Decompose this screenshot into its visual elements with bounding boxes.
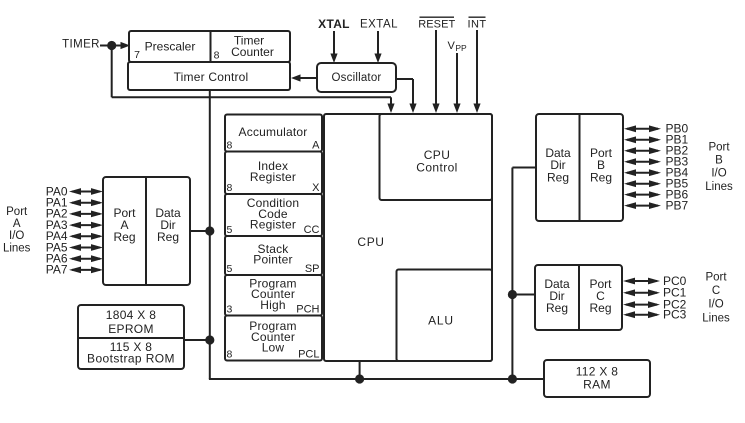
svg-text:Prescaler: Prescaler — [145, 39, 196, 53]
svg-text:8: 8 — [214, 49, 220, 61]
svg-text:Lines: Lines — [3, 242, 31, 254]
svg-text:RESET: RESET — [418, 19, 455, 31]
svg-text:8: 8 — [227, 139, 233, 151]
svg-text:Register: Register — [250, 170, 296, 184]
svg-text:PCH: PCH — [296, 304, 319, 316]
svg-text:Lines: Lines — [705, 181, 733, 193]
svg-text:EXTAL: EXTAL — [360, 19, 398, 31]
svg-text:SP: SP — [305, 263, 320, 275]
svg-text:EPROM: EPROM — [108, 322, 154, 336]
svg-text:I/O: I/O — [708, 299, 723, 311]
svg-text:PC3: PC3 — [663, 308, 687, 322]
svg-text:X: X — [312, 182, 320, 194]
svg-text:XTAL: XTAL — [318, 17, 350, 31]
svg-text:CC: CC — [304, 224, 320, 236]
svg-text:Port: Port — [6, 206, 28, 218]
svg-text:I/O: I/O — [711, 168, 726, 180]
svg-text:CPU: CPU — [357, 235, 384, 249]
svg-text:INT: INT — [468, 19, 487, 31]
svg-text:Port: Port — [708, 141, 730, 153]
svg-text:TIMER: TIMER — [62, 39, 100, 51]
svg-text:PA7: PA7 — [46, 263, 68, 277]
svg-text:ALU: ALU — [428, 313, 454, 327]
svg-text:A: A — [312, 140, 320, 152]
svg-text:Control: Control — [416, 160, 457, 174]
svg-text:3: 3 — [227, 303, 233, 315]
svg-text:Accumulator: Accumulator — [239, 125, 308, 139]
svg-text:Timer Control: Timer Control — [174, 70, 249, 84]
svg-text:B: B — [715, 154, 723, 166]
svg-text:Low: Low — [262, 341, 285, 355]
svg-text:Reg: Reg — [589, 301, 611, 315]
svg-text:1804 X 8: 1804 X 8 — [106, 308, 156, 322]
svg-text:Lines: Lines — [702, 312, 730, 324]
svg-text:A: A — [13, 218, 21, 230]
svg-text:Reg: Reg — [547, 170, 569, 184]
svg-text:Bootstrap ROM: Bootstrap ROM — [87, 351, 175, 365]
svg-text:7: 7 — [134, 49, 140, 61]
svg-text:I/O: I/O — [9, 230, 24, 242]
svg-text:Pointer: Pointer — [253, 253, 292, 267]
svg-text:8: 8 — [227, 348, 233, 360]
svg-text:Register: Register — [250, 218, 296, 232]
svg-text:Reg: Reg — [113, 230, 135, 244]
svg-text:5: 5 — [227, 263, 233, 275]
svg-text:RAM: RAM — [583, 377, 611, 391]
svg-text:Reg: Reg — [157, 230, 179, 244]
svg-text:PB7: PB7 — [666, 198, 689, 212]
svg-text:Counter: Counter — [231, 45, 274, 59]
svg-text:PCL: PCL — [298, 349, 319, 361]
svg-text:Oscillator: Oscillator — [332, 72, 382, 84]
svg-text:Reg: Reg — [546, 301, 568, 315]
svg-text:8: 8 — [227, 182, 233, 194]
svg-text:Port: Port — [705, 271, 727, 283]
svg-text:Reg: Reg — [590, 170, 612, 184]
svg-text:C: C — [712, 285, 720, 297]
svg-text:5: 5 — [227, 224, 233, 236]
svg-text:High: High — [260, 298, 285, 312]
